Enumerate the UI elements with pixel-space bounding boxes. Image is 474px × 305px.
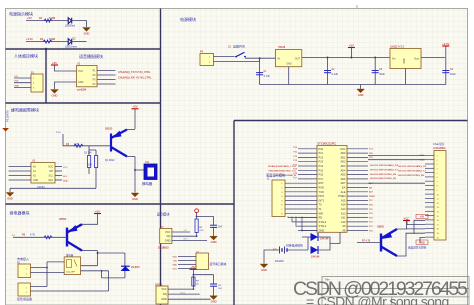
svg-text:GND: GND [84, 31, 90, 35]
block divider vertical [45, 49, 47, 103]
wire Q3 base [357, 242, 381, 244]
power port +5V [132, 105, 139, 109]
wire U3 right pin2 [55, 170, 62, 172]
svg-text:GND: GND [404, 58, 406, 63]
wire U5 gnd [404, 69, 406, 85]
junction [97, 252, 99, 254]
wire staircase 3 [296, 217, 317, 227]
wire U6 pin2 [172, 235, 197, 237]
svg-text:+5V: +5V [132, 105, 137, 109]
connector J1 LCD1602 [272, 180, 285, 217]
svg-text:显示模块: 显示模块 [157, 211, 171, 216]
svg-text:SCL: SCL [49, 176, 54, 178]
block divider horizontal [234, 120, 468, 122]
svg-text:C6 104: C6 104 [84, 153, 92, 155]
svg-text:OUT: OUT [14, 81, 19, 83]
wire P1 pin2 [14, 82, 31, 84]
wire top b [193, 274, 213, 276]
wire to relay right pin2 [81, 265, 98, 267]
junction [259, 57, 261, 59]
IC U3 24C02 [31, 163, 55, 184]
svg-text:AD3: AD3 [340, 164, 346, 168]
wire emitter right [82, 250, 98, 252]
wire row1 to J2 [368, 154, 425, 156]
wire U8 pin1 [168, 288, 193, 290]
svg-text:R7 4.7K: R7 4.7K [362, 240, 371, 242]
wire row2 to J2 [368, 159, 425, 161]
wire J2 pin16 [414, 220, 425, 234]
svg-text:电源指示模块: 电源指示模块 [9, 11, 33, 17]
svg-text:RXD: RXD [319, 186, 325, 190]
wire emitter down [97, 251, 99, 266]
wire resistor tops [89, 149, 96, 151]
svg-text:+5V: +5V [190, 265, 195, 269]
svg-text:P14: P14 [319, 164, 324, 168]
svg-text:SHUJU3 WEI/YEJING_EN: SHUJU3 WEI/YEJING_EN [398, 175, 424, 177]
transistor Q2 [67, 224, 82, 250]
junction [46, 267, 48, 269]
svg-text:P1.5: P1.5 [56, 132, 61, 134]
wire U3 right pin3 [55, 175, 62, 177]
svg-text:P12: P12 [319, 155, 324, 159]
wire switch to U4 [245, 57, 276, 59]
junction [327, 57, 329, 59]
svg-text:时钟电池模块: 时钟电池模块 [286, 243, 303, 247]
wire P4 pin2 [214, 58, 260, 61]
wire Q3 collector [397, 221, 407, 230]
IC U7 bluetooth [196, 253, 209, 270]
wire base [63, 134, 111, 146]
svg-text:电源模块: 电源模块 [180, 16, 196, 22]
IC U1 left pin wires [298, 148, 317, 150]
wire to diode top [98, 252, 125, 254]
capacitor C1 [256, 73, 263, 75]
wire U4 out [302, 57, 390, 59]
connector P3 [18, 283, 31, 296]
wire U3 right pin1 [55, 166, 62, 168]
wire U2 out pin1 [97, 70, 116, 72]
wire row1 [26, 20, 69, 22]
power port +3.3V [442, 42, 450, 46]
svg-text:AD0: AD0 [340, 151, 346, 155]
battery BT1 [280, 247, 288, 254]
svg-text:1N4148: 1N4148 [311, 255, 320, 258]
svg-text:SDA: SDA [63, 180, 68, 183]
wire P2 pin1 [31, 267, 48, 269]
svg-text:接负载设备: 接负载设备 [17, 296, 32, 301]
svg-text:A15: A15 [341, 198, 346, 202]
wire Q3 emitter [397, 255, 406, 258]
wire row8 to J2 [368, 182, 425, 184]
svg-text:+3.3V: +3.3V [442, 42, 450, 46]
ground [357, 89, 365, 97]
svg-text:4.7K: 4.7K [199, 230, 204, 232]
power port VCC [403, 216, 410, 220]
svg-text:A12: A12 [341, 211, 346, 215]
svg-text:Vout: Vout [414, 58, 419, 61]
wire U4 gnd [288, 67, 290, 85]
junction [101, 270, 103, 272]
buzzer LS1 [144, 164, 157, 180]
svg-text:RXD: RXD [173, 256, 178, 258]
svg-text:+5V: +5V [95, 209, 100, 213]
svg-text:DQ11: DQ11 [180, 292, 186, 294]
junction [374, 57, 376, 59]
svg-text:CHUANQI_RX/ YUYIN_CTRL: CHUANQI_RX/ YUYIN_CTRL [118, 77, 152, 80]
svg-text:GND: GND [319, 229, 325, 233]
resistor R9 [192, 277, 195, 286]
svg-text:TXD: TXD [173, 260, 178, 262]
wire J2 pin19 [406, 233, 425, 255]
power label box [416, 214, 428, 218]
wire C1 branch [259, 58, 261, 84]
ground [131, 193, 139, 201]
ground [83, 28, 91, 36]
svg-text:P10: P10 [319, 147, 324, 151]
wire battery right [287, 249, 308, 251]
svg-text:LEDRed: LEDRed [65, 24, 75, 28]
svg-text:DS1302: DS1302 [275, 260, 284, 263]
junction divider [45, 48, 48, 51]
svg-text:+5V: +5V [27, 16, 32, 20]
svg-text:EA: EA [342, 186, 346, 190]
transistor Q1 [111, 130, 127, 157]
svg-text:GND: GND [7, 196, 13, 200]
svg-text:A9: A9 [342, 224, 346, 228]
svg-text:Chan显示: Chan显示 [433, 142, 445, 146]
wire emitter [127, 156, 135, 158]
junction [196, 235, 198, 237]
svg-text:30uF: 30uF [379, 73, 385, 76]
svg-text:R1: R1 [39, 16, 43, 20]
wire U8 pin2 [168, 293, 200, 295]
block divider horizontal [6, 102, 161, 104]
connector P1 [31, 74, 43, 92]
svg-text:GND: GND [33, 180, 38, 182]
switch S1 [235, 52, 246, 57]
diode D3 1N4007 [121, 266, 130, 271]
svg-text:VCC: VCC [161, 287, 167, 291]
ground [260, 264, 268, 272]
svg-text:OUT: OUT [295, 58, 301, 61]
wire battery to gnd [264, 250, 280, 264]
svg-text:ALE: ALE [341, 190, 346, 194]
svg-text:AD5: AD5 [340, 173, 346, 177]
block divider horizontal [6, 48, 161, 50]
svg-text:Vin: Vin [392, 58, 396, 61]
svg-text:GND: GND [211, 240, 217, 244]
svg-text:INT1: INT1 [319, 198, 325, 202]
svg-text:GND: GND [183, 239, 188, 241]
connector J2 LCD12864 [434, 151, 446, 241]
svg-text:P17: P17 [319, 177, 324, 181]
svg-text:VCC: VCC [63, 167, 68, 169]
svg-text:SHUJU2 WEI/CHUANQI_TX: SHUJU2 WEI/CHUANQI_TX [370, 169, 398, 172]
wire cap gnd stem [213, 227, 215, 236]
svg-text:SHUJU4 WEI/YEJING_RS: SHUJU4 WEI/YEJING_RS [370, 178, 397, 180]
svg-text:蜂鸣器报警模块: 蜂鸣器报警模块 [11, 106, 39, 112]
svg-text:VCC: VCC [173, 268, 178, 270]
IC U1 MCU [317, 146, 347, 233]
wire cap stem [213, 217, 215, 226]
wire cap b stem [213, 275, 215, 284]
svg-text:0.1uF: 0.1uF [332, 73, 339, 76]
wire resistor bottom [95, 174, 97, 188]
wire +5V to Q2 [80, 214, 98, 225]
wire U3 left pin1 [9, 166, 32, 168]
capacitor C7 [210, 225, 217, 227]
regulator U4 78L05 [276, 50, 302, 67]
svg-text:P3.2/INT0: P3.2/INT0 [6, 110, 10, 122]
wire C2 branch [327, 58, 329, 85]
wire staircase 1 [288, 217, 317, 218]
wire relay left pin [47, 261, 64, 263]
wire vertical link [46, 262, 48, 287]
junction [134, 169, 136, 171]
wire U2 GND [55, 82, 77, 89]
wire J2 pin20 [420, 238, 425, 244]
svg-text:A11: A11 [341, 216, 346, 220]
svg-text:VCC: VCC [48, 167, 53, 169]
svg-text:INT0: INT0 [319, 194, 325, 198]
svg-text:A14: A14 [341, 203, 346, 207]
wire U8 pin3 [168, 298, 211, 300]
svg-text:P13: P13 [319, 160, 324, 164]
junction [196, 216, 198, 218]
IC U8 DHT11 [156, 286, 168, 304]
ground [51, 90, 59, 98]
diode D5 1N4148 [311, 246, 319, 254]
capacitor C4 [442, 71, 449, 73]
svg-text:人体感应模块: 人体感应模块 [14, 52, 38, 58]
svg-text:GND: GND [52, 93, 58, 97]
power port +5V circle [195, 209, 199, 217]
ground left edge [2, 128, 9, 132]
svg-text:+5V: +5V [420, 216, 425, 219]
svg-text:DQ: DQ [163, 292, 167, 296]
wire row2 end [72, 41, 87, 43]
power label box 2 [416, 240, 428, 244]
svg-text:VCC: VCC [165, 230, 171, 234]
capacitor C8 [210, 284, 217, 286]
svg-text:A13: A13 [341, 207, 346, 211]
wire P2 pin2 to relay [31, 272, 65, 274]
wire to cap branch [197, 216, 214, 218]
wire collector [127, 129, 135, 131]
wire U5 out [421, 57, 445, 59]
svg-text:RD: RD [319, 216, 323, 220]
wire diodes join [318, 237, 330, 250]
svg-text:PSEN: PSEN [338, 194, 345, 198]
wire to D4 [308, 236, 311, 238]
svg-text:78L05: 78L05 [278, 45, 286, 49]
svg-text:4.7uF: 4.7uF [264, 75, 271, 78]
wire U3 left pin4 [9, 179, 32, 181]
svg-text:FENGMING/BAOJING_CTL: FENGMING/BAOJING_CTL [269, 170, 297, 173]
svg-text:LM1117+3.3: LM1117+3.3 [390, 45, 405, 49]
wire diode vertical [124, 253, 126, 278]
svg-text:P15: P15 [319, 168, 324, 172]
capacitor C2 [324, 71, 331, 73]
ground [6, 193, 14, 201]
wire P1 pin1 [14, 77, 31, 79]
wire U6 pin1 [172, 231, 190, 233]
svg-text:蜂鸣器: 蜂鸣器 [142, 181, 153, 186]
svg-text:AD7: AD7 [340, 181, 346, 185]
svg-text:AD6: AD6 [340, 177, 346, 181]
resistor R6 [44, 236, 52, 239]
resistor R1 [44, 19, 52, 22]
diode [68, 18, 71, 24]
wire diode bottom [102, 277, 125, 279]
wire Q2 base [13, 236, 67, 238]
resistor R2 [43, 40, 52, 43]
svg-text:ALE: ALE [369, 191, 374, 194]
wire P3 pin2 [31, 290, 109, 292]
connector P4 [200, 54, 214, 66]
diode [68, 39, 71, 45]
wire U7 pin3 [178, 264, 196, 266]
resistor R3 [74, 144, 83, 147]
svg-text:510R: 510R [49, 16, 55, 20]
wire gnd stem [9, 188, 11, 192]
svg-text:10K: 10K [88, 165, 93, 167]
wire U2 out pin4 [97, 83, 116, 85]
svg-text:DS18B20: DS18B20 [158, 247, 169, 250]
svg-text:1N4007: 1N4007 [131, 266, 140, 269]
relay internals [67, 260, 78, 268]
wire +5V down [134, 109, 136, 129]
svg-text:S8550: S8550 [105, 128, 113, 131]
wire contact down [101, 271, 103, 278]
resistor R4 [88, 150, 91, 174]
svg-text:CHUANQI_TX/YUYIN_CTRL: CHUANQI_TX/YUYIN_CTRL [118, 71, 151, 74]
svg-text:GND: GND [132, 197, 138, 201]
wire to ground [72, 21, 87, 27]
wire P3 pin1 [31, 286, 48, 288]
svg-text:GND: GND [161, 297, 167, 301]
svg-text:LCD12864: LCD12864 [433, 146, 446, 150]
connector J1 pin wires to U1 [285, 182, 317, 184]
wire J2 pin18 [406, 228, 425, 230]
wire contact to P3 [108, 271, 110, 291]
junction [193, 288, 195, 290]
svg-text:R2: R2 [40, 37, 44, 41]
power port +5V [94, 209, 101, 213]
wire C4 branch [445, 58, 447, 85]
svg-text:AD4: AD4 [340, 168, 346, 172]
svg-text:继电器: 继电器 [66, 253, 74, 257]
svg-text:+5V: +5V [14, 76, 18, 78]
wire diode branch [307, 237, 309, 250]
wire U1 to D4 [302, 236, 308, 238]
svg-text:IN: IN [278, 58, 281, 61]
ground b [210, 296, 218, 304]
wire U7 pin2 [178, 260, 196, 262]
power port +5V [348, 43, 355, 47]
svg-text:VCC: VCC [404, 216, 410, 220]
IC U2 voice chip [77, 66, 98, 87]
svg-text:蓝牙串口模块: 蓝牙串口模块 [210, 262, 227, 266]
svg-text:S8550: S8550 [59, 218, 67, 221]
svg-text:SHUJU2 WEI/CHUANQI_TX: SHUJU2 WEI/CHUANQI_TX [398, 170, 426, 173]
svg-text:S8550: S8550 [377, 225, 385, 228]
wire to buzzer [135, 169, 144, 171]
wire +3.3V stem [445, 46, 447, 58]
junction [301, 230, 303, 232]
svg-text:TXD: TXD [319, 190, 324, 194]
wire relay contact [81, 270, 109, 272]
svg-text:RENTI/HONGWAI_IN: RENTI/HONGWAI_IN [275, 174, 297, 177]
svg-text:+5V: +5V [52, 61, 57, 65]
svg-text:AD1: AD1 [340, 155, 346, 159]
svg-text:LEDGreen: LEDGreen [65, 44, 78, 48]
wire gnd stem [360, 85, 362, 89]
svg-text:GND: GND [358, 93, 364, 97]
svg-text:市电接入: 市电接入 [17, 256, 29, 261]
svg-text:继电器模块: 继电器模块 [10, 210, 30, 216]
svg-text:VCC: VCC [369, 149, 374, 151]
wire row2 [26, 41, 69, 43]
svg-text:1N4148: 1N4148 [320, 238, 329, 241]
svg-text:JQC-3FF: JQC-3FF [66, 272, 76, 274]
wire +5V stem b [192, 269, 194, 289]
svg-text:SDA: SDA [48, 179, 53, 182]
svg-text:GND: GND [419, 241, 425, 244]
svg-text:GND: GND [211, 300, 217, 304]
title block [322, 277, 469, 305]
svg-text:VCC: VCC [340, 147, 346, 151]
wire U2 out pin3 [97, 79, 116, 81]
svg-text:Q1 9012: Q1 9012 [105, 159, 115, 162]
wire U3 left pin2 [9, 170, 32, 172]
svg-text:+5V: +5V [183, 230, 187, 232]
wire P4 pin1 [214, 56, 235, 58]
svg-text:SHUJU3 WEI/YEJING_EN: SHUJU3 WEI/YEJING_EN [370, 174, 396, 176]
wire P1 pin3 [14, 86, 31, 88]
svg-text:XTAL2: XTAL2 [319, 220, 327, 224]
svg-text:GND: GND [172, 264, 177, 266]
svg-text:4.7K: 4.7K [30, 234, 35, 237]
wire C3 branch [374, 58, 376, 85]
wire +5V stem [350, 48, 352, 58]
power port +5V b [190, 265, 197, 269]
diode D4 1N4148 [311, 233, 319, 241]
wire cap b gnd stem [213, 286, 215, 296]
wire +5V to U2 [55, 65, 77, 71]
svg-text:GND: GND [286, 64, 291, 66]
svg-text:自锁开关: 自锁开关 [233, 44, 245, 49]
junction [193, 274, 195, 276]
svg-text:+5V: +5V [349, 43, 354, 47]
svg-text:= CSDN @Mr song song: = CSDN @Mr song song [306, 294, 449, 305]
svg-text:syn6288: syn6288 [77, 89, 87, 92]
wire to U1 [330, 232, 340, 243]
svg-text:PSEN: PSEN [369, 196, 375, 198]
svg-text:液晶屏背光控制: 液晶屏背光控制 [408, 246, 427, 250]
connector P2 [18, 264, 31, 278]
svg-text:语音播报模块: 语音播报模块 [79, 53, 103, 59]
svg-text:JIDIANQI/SHEXIANG_CTRL: JIDIANQI/SHEXIANG_CTRL [268, 165, 297, 168]
svg-text:10uF: 10uF [450, 73, 456, 76]
svg-text:AD2: AD2 [340, 160, 346, 164]
svg-text:A8: A8 [342, 229, 346, 233]
wire J2 pin17 [407, 219, 425, 225]
block divider horizontal [6, 203, 235, 205]
wire U2 out pin2 [97, 74, 116, 76]
wire U6 pin3 [172, 239, 207, 241]
ground [210, 236, 218, 244]
